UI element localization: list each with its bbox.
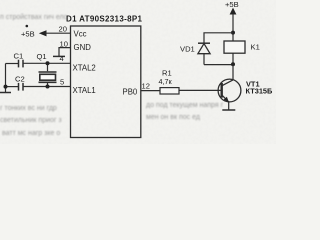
stray ink dot [26, 25, 29, 28]
ground (emitter) [222, 109, 235, 111]
wire junction to collector [232, 65, 234, 80]
paper background [0, 0, 276, 144]
wire relay to collector junction [232, 53, 234, 64]
wire left rail [5, 64, 7, 93]
svg-text:Q1: Q1 [37, 52, 47, 61]
wire PB0 to R1 [141, 90, 160, 92]
arrow +5V left [39, 30, 47, 36]
ghost bleed-through text (decorative) [0, 13, 224, 137]
svg-text:4: 4 [60, 54, 64, 63]
svg-text:4,7к: 4,7к [159, 77, 173, 86]
wire diode bottom return [204, 64, 233, 66]
ground (pin10) [53, 55, 65, 57]
svg-text:светильник приог з: светильник приог з [0, 117, 62, 124]
svg-text:КТ315Б: КТ315Б [246, 87, 274, 96]
svg-text:12: 12 [142, 81, 150, 90]
svg-text:до под текущем напря г: до под текущем напря г [146, 102, 224, 109]
wire XTAL2 (pin 4) [23, 62, 71, 64]
wire emitter to ground [228, 102, 230, 110]
svg-text:XTAL1: XTAL1 [73, 86, 96, 95]
svg-text:XTAL2: XTAL2 [73, 63, 96, 72]
svg-text:VD1: VD1 [180, 45, 195, 54]
svg-text:D1 AT90S2313-8P1: D1 AT90S2313-8P1 [66, 15, 143, 24]
svg-text:K1: K1 [251, 43, 260, 52]
arrow +5V up [230, 8, 237, 15]
svg-text:5: 5 [60, 77, 64, 86]
svg-text:C1: C1 [14, 52, 24, 61]
svg-text:ватт мс нагр зке о: ватт мс нагр зке о [2, 130, 60, 137]
svg-text:г тонких вс ни гдр: г тонких вс ни гдр [0, 105, 57, 112]
svg-text:GND: GND [74, 43, 92, 52]
ground (left rail) [0, 92, 11, 94]
emitter arrowhead [224, 97, 229, 102]
svg-text:PB0: PB0 [123, 87, 138, 96]
wire +5V down to junction [232, 14, 234, 41]
wire pin20 [45, 32, 71, 34]
node crystal/XTAL1 [46, 85, 50, 89]
node crystal/XTAL2 [46, 61, 50, 65]
node junction rail/C2 [4, 85, 8, 89]
svg-text:п стройствах гич елс: п стройствах гич елс [0, 13, 68, 21]
wire diode top branch [204, 33, 233, 43]
svg-text:C2: C2 [15, 74, 25, 83]
svg-text:10: 10 [60, 39, 68, 48]
svg-text:20: 20 [59, 25, 67, 34]
svg-text:+5В: +5В [225, 0, 239, 9]
svg-text:+5В: +5В [21, 30, 35, 39]
IC D1 AT90S2313-8P1 body [71, 26, 141, 138]
wire XTAL1 (pin 5) [23, 86, 71, 88]
wire pin10 [59, 48, 71, 57]
relay K1 [224, 41, 245, 53]
svg-text:мен он вк пос ед: мен он вк пос ед [146, 114, 200, 121]
wire R1 to base [179, 89, 221, 91]
svg-text:Vcc: Vcc [74, 30, 87, 39]
node bottom junction [231, 62, 235, 66]
node top junction [231, 31, 235, 35]
